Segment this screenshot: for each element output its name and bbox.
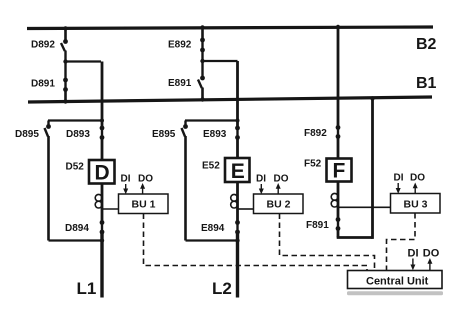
svg-text:DI: DI xyxy=(256,174,266,185)
bus B1 xyxy=(28,97,432,102)
breaker F52 box F xyxy=(327,159,352,183)
bay unit BU 1 xyxy=(119,194,169,214)
disconnector D891 (closed) xyxy=(63,78,68,92)
label L1 xyxy=(77,279,97,298)
wire CT to BU 3 xyxy=(338,206,391,208)
svg-text:E892: E892 xyxy=(168,40,192,51)
wire E junction horizontal xyxy=(203,60,238,62)
wire feeder to L2 xyxy=(236,232,239,298)
label E893 xyxy=(203,129,227,140)
wire E bypass top horizontal xyxy=(185,119,238,121)
arrow DO out of BU 1 xyxy=(140,183,145,194)
svg-text:D891: D891 xyxy=(31,79,55,90)
wire breaker D to CT xyxy=(101,184,104,223)
disconnector D895 (open) xyxy=(45,121,51,137)
node E junction to feeder xyxy=(200,59,204,63)
node E bypass tee xyxy=(236,119,240,123)
svg-text:BU 1: BU 1 xyxy=(132,199,156,211)
scan shadow under central unit xyxy=(347,291,443,295)
svg-text:Central Unit: Central Unit xyxy=(366,276,429,288)
svg-text:BU 2: BU 2 xyxy=(267,199,291,211)
arrow DO out of BU 2 xyxy=(276,183,281,194)
disconnector D894 (closed) xyxy=(100,220,105,234)
wire E893 to breaker E xyxy=(236,138,239,159)
wire D891 to B1 xyxy=(63,90,67,104)
svg-text:E52: E52 xyxy=(202,161,220,172)
CT F coupler xyxy=(331,193,338,207)
label D895 xyxy=(15,129,39,140)
dashed control wire BU 3 to Central Unit xyxy=(387,213,416,271)
svg-text:F892: F892 xyxy=(304,128,327,139)
arrow DI into BU 3 xyxy=(396,183,401,194)
breaker E52 box E xyxy=(225,158,250,183)
arrow DO out of BU 3 xyxy=(413,183,418,194)
wire F coupler riser to B1 xyxy=(370,96,374,239)
bay unit BU 2 xyxy=(254,194,304,214)
label E892 xyxy=(168,40,192,51)
label D893 xyxy=(66,129,90,140)
wire D between D892 and D891 xyxy=(64,51,66,80)
node D junction to feeder xyxy=(63,59,67,63)
label E891 xyxy=(168,78,192,89)
label DO (Central Unit) xyxy=(423,248,440,260)
wire E feeder drop xyxy=(236,61,239,127)
dashed control wire BU 2 to Central Unit xyxy=(280,214,375,271)
disconnector E894 (closed) xyxy=(235,220,240,234)
wire E bus-selector drop from B2 xyxy=(200,25,204,40)
svg-text:B1: B1 xyxy=(416,75,437,92)
disconnector E893 (closed) xyxy=(235,126,240,140)
disconnector E895 (open) xyxy=(182,121,188,137)
svg-text:DO: DO xyxy=(423,248,440,260)
wire D feeder drop xyxy=(101,62,104,128)
label DI (BU 1) xyxy=(121,174,131,185)
disconnector D892 (open) xyxy=(61,39,68,51)
svg-text:DI: DI xyxy=(408,248,419,260)
node D feeder rejoin xyxy=(100,238,104,242)
svg-text:E894: E894 xyxy=(201,223,225,234)
wire E bypass bottom horizontal xyxy=(186,239,238,241)
dashed control wire BU 1 to Central Unit xyxy=(144,214,368,271)
svg-text:F891: F891 xyxy=(306,220,329,231)
svg-text:DO: DO xyxy=(274,174,289,185)
svg-text:E895: E895 xyxy=(152,129,176,140)
breaker D52 box D xyxy=(89,160,115,185)
wire F892 to breaker F xyxy=(337,137,340,159)
svg-text:L1: L1 xyxy=(77,279,97,298)
svg-text:E893: E893 xyxy=(203,129,227,140)
label F891 xyxy=(306,220,329,231)
wire CT to BU 1 xyxy=(102,208,119,210)
node E feeder rejoin xyxy=(235,238,239,242)
wire D893 to breaker D xyxy=(101,138,104,161)
label E895 xyxy=(152,129,176,140)
label E52 xyxy=(202,161,220,172)
svg-text:BU 3: BU 3 xyxy=(404,199,428,211)
label D891 xyxy=(31,79,55,90)
label D892 xyxy=(31,40,55,51)
svg-text:DI: DI xyxy=(394,173,404,184)
wire D bus-selector drop from B2 xyxy=(63,26,67,41)
svg-text:DI: DI xyxy=(121,174,131,185)
label B1 xyxy=(416,75,437,92)
disconnector F891 (closed) xyxy=(336,217,341,231)
wire D junction horizontal xyxy=(66,60,102,62)
svg-text:E: E xyxy=(231,160,245,183)
arrow DI into BU 2 xyxy=(259,184,264,194)
svg-text:F: F xyxy=(333,160,346,183)
disconnector F892 (closed) xyxy=(336,125,341,139)
CT E feeder xyxy=(231,194,238,208)
wire E between E892 and E891 xyxy=(201,50,203,78)
wire breaker F to CT xyxy=(337,182,340,220)
wire CT to BU 2 xyxy=(238,208,254,210)
svg-text:E891: E891 xyxy=(168,78,192,89)
disconnector E892 (closed) xyxy=(200,38,205,53)
label DO (BU 1) xyxy=(138,174,153,185)
central unit xyxy=(348,271,443,289)
wire D bypass vertical xyxy=(47,136,50,241)
svg-text:F52: F52 xyxy=(304,159,322,170)
label D894 xyxy=(65,223,89,234)
CT D feeder xyxy=(95,194,102,208)
label DI (BU 3) xyxy=(394,173,404,184)
label L2 xyxy=(212,279,232,298)
disconnector D893 (closed) xyxy=(100,126,105,140)
wire breaker E to CT xyxy=(236,183,239,223)
svg-text:D: D xyxy=(95,162,110,185)
disconnector E891 (open) xyxy=(198,76,205,88)
wire E bypass vertical xyxy=(184,136,187,241)
label DI (Central Unit) xyxy=(408,248,419,260)
bay unit BU 3 xyxy=(391,194,441,214)
label E894 xyxy=(201,223,225,234)
svg-text:L2: L2 xyxy=(212,279,232,298)
node D bypass tee xyxy=(100,119,104,123)
svg-text:D892: D892 xyxy=(31,40,55,51)
label B2 xyxy=(416,36,437,53)
label DO (BU 2) xyxy=(274,174,289,185)
label F892 xyxy=(304,128,327,139)
svg-text:D894: D894 xyxy=(65,223,89,234)
wire E891 to B1 xyxy=(200,88,204,102)
wire F coupler bottom corner xyxy=(337,229,373,238)
svg-text:DO: DO xyxy=(138,174,153,185)
wire D bypass bottom horizontal xyxy=(49,239,103,241)
svg-text:B2: B2 xyxy=(416,36,437,53)
wire F coupler drop from B2 xyxy=(336,25,340,127)
svg-text:D893: D893 xyxy=(66,129,90,140)
svg-text:DO: DO xyxy=(410,173,425,184)
label D52 xyxy=(66,162,85,173)
label DO (BU 3) xyxy=(410,173,425,184)
svg-text:D52: D52 xyxy=(66,162,85,173)
wire D bypass top horizontal xyxy=(48,119,102,121)
svg-text:D895: D895 xyxy=(15,129,39,140)
arrow DI into BU 1 xyxy=(123,184,128,194)
arrow DO out of Central Unit xyxy=(427,258,432,271)
label DI (BU 2) xyxy=(256,174,266,185)
bus B2 xyxy=(27,27,433,29)
wire feeder to L1 xyxy=(100,232,103,298)
label F52 xyxy=(304,159,322,170)
arrow DI into Central Unit xyxy=(410,259,415,271)
